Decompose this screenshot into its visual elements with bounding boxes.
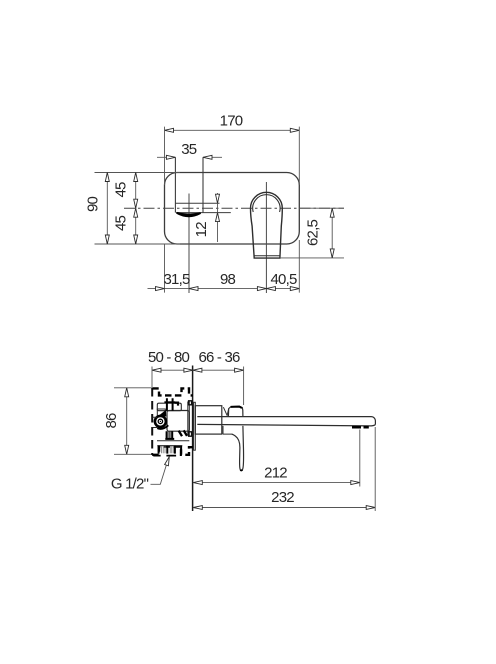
dimension 232 extension	[374, 427, 376, 511]
svg-text:40,5: 40,5	[271, 271, 297, 288]
dimension 212 extension	[359, 430, 361, 487]
dimension 62,5 extension lines	[299, 207, 344, 209]
dimension 35	[157, 156, 222, 158]
svg-text:12: 12	[193, 222, 210, 238]
dark crescent under circle	[157, 425, 168, 429]
bottom stem hatch	[168, 432, 171, 439]
dimension 232 line	[193, 507, 375, 509]
handle inner arc	[253, 195, 280, 212]
dimension 90 line	[106, 173, 108, 245]
svg-text:G 1/2": G 1/2"	[111, 476, 149, 493]
svg-text:62,5: 62,5	[304, 220, 321, 246]
extension line left (body front)	[151, 367, 153, 388]
handle outer outline	[250, 192, 282, 258]
G 1/2 leader line	[151, 463, 168, 484]
spout outlet top line	[175, 202, 219, 204]
dimension 50-80 / 66-36 line	[152, 369, 244, 371]
svg-text:212: 212	[264, 465, 287, 482]
svg-text:90: 90	[85, 197, 102, 213]
dimension 45/45 line	[135, 173, 137, 245]
right bottom dark hooks	[179, 430, 187, 436]
bracket-cartridge connector lines	[152, 417, 157, 427]
extension line right (handle back)	[243, 367, 245, 406]
cartridge upper block	[157, 403, 181, 411]
svg-text:35: 35	[181, 141, 197, 158]
bottom sockets top line	[157, 445, 182, 447]
handle lever blade	[231, 426, 243, 471]
bottom dimension line 31,5 / 98 / 40,5	[148, 288, 300, 290]
bottom dark dashes	[153, 455, 176, 457]
in-wall bracket top dashed profile	[152, 388, 193, 395]
spout top line	[197, 417, 375, 425]
right flange double line	[188, 402, 190, 436]
wall tabs	[189, 401, 192, 405]
dimension 86 extension lines	[114, 388, 152, 455]
horizontal centerline	[124, 207, 344, 209]
dimension 12 vertical line	[217, 193, 219, 242]
body-knob diagonals	[223, 407, 228, 416]
svg-text:170: 170	[220, 113, 243, 130]
cartridge main block	[167, 411, 189, 432]
extension lines below plate (31,5 / 40,5)	[165, 240, 300, 293]
dimension 170 line	[165, 129, 300, 131]
svg-text:45: 45	[112, 182, 129, 198]
aerator dark strip	[352, 426, 369, 429]
bottom stem dark verticals	[167, 431, 173, 438]
inlet circle bullseye	[155, 416, 166, 427]
svg-text:50 - 80: 50 - 80	[148, 349, 190, 366]
spout vertical centerline	[188, 194, 190, 294]
svg-text:98: 98	[220, 271, 236, 288]
handle lever tip dark cap	[240, 469, 242, 472]
faucet body side view	[195, 406, 222, 434]
socket hatches	[161, 446, 173, 453]
handle bottom cap inner line	[254, 255, 280, 257]
spout bottom line	[197, 424, 375, 426]
left small block	[157, 409, 165, 416]
in-wall bracket left dashed edge	[151, 388, 153, 455]
dimension 90 extension lines	[95, 173, 181, 245]
spout outlet dark crescent	[177, 213, 201, 216]
svg-text:232: 232	[271, 489, 294, 506]
svg-text:31,5: 31,5	[164, 271, 190, 288]
bottom socket walls	[159, 446, 182, 454]
svg-text:66 - 36: 66 - 36	[198, 349, 240, 366]
escutcheon plate side view	[194, 402, 196, 450]
spout outlet bottom line	[176, 212, 231, 214]
dimension 62,5 line	[331, 208, 333, 258]
wall plate rounded rectangle	[165, 173, 300, 245]
lower cover line	[157, 440, 189, 442]
handle knob	[228, 406, 243, 416]
stem top flange	[164, 401, 175, 403]
svg-text:86: 86	[103, 413, 120, 429]
dark hook right of stem	[175, 403, 179, 406]
spout front view sides	[175, 157, 203, 212]
dark wedge left of circle	[160, 411, 166, 415]
handle vertical centerline	[265, 182, 267, 293]
body lower step verticals	[223, 426, 232, 434]
svg-text:45: 45	[112, 216, 129, 232]
dimension 86 line	[126, 388, 128, 455]
wall line	[192, 366, 194, 512]
dimension 170 extension lines	[165, 127, 300, 185]
dimension 212 line	[193, 482, 359, 484]
in-wall bracket bottom dashed profile	[152, 447, 193, 455]
cartridge stem dark verticals	[167, 398, 173, 410]
handle knob dark top	[231, 407, 242, 408]
bottom stem flange	[165, 438, 174, 440]
